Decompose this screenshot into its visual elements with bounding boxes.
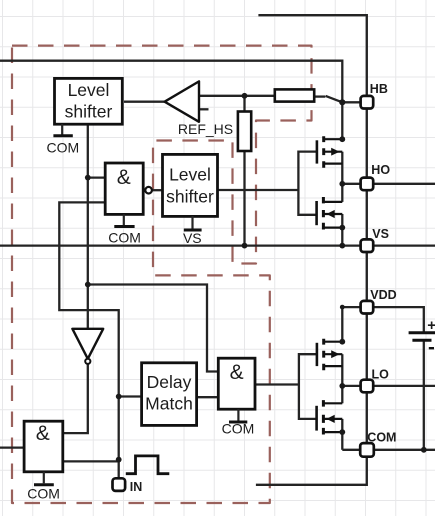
svg-text:COM: COM bbox=[367, 431, 396, 445]
svg-text:+: + bbox=[427, 317, 435, 334]
svg-text:&: & bbox=[230, 361, 244, 384]
node IN/AND2 bbox=[116, 457, 122, 463]
wire LS1 down through junctions to inverter bbox=[87, 124, 89, 329]
wire R2 bottom lead to VS rail bbox=[243, 151, 245, 246]
svg-text:shifter: shifter bbox=[166, 187, 214, 207]
wire VS rail bbox=[0, 244, 435, 246]
wire AND3 output to low-side gate bus bbox=[255, 383, 299, 385]
wire HB node to HB pin bbox=[342, 101, 361, 103]
transistor Q1 high-side upper PMOS bbox=[317, 136, 342, 168]
pin HO bbox=[361, 163, 391, 190]
level shifter U2 bbox=[163, 154, 218, 216]
wire high-side gate bus bbox=[298, 152, 316, 215]
wire top-left rail to HB node bbox=[0, 61, 342, 140]
wire node to resistor R1 bbox=[245, 95, 276, 97]
pin HB bbox=[361, 82, 388, 109]
switch blade to HB node bbox=[326, 96, 343, 102]
wire main right pin rail bbox=[256, 108, 367, 485]
AND gate G1 bbox=[105, 163, 152, 214]
wire Q3 source to LO node bbox=[341, 354, 343, 386]
wire HO line bbox=[342, 183, 435, 185]
wire low-side gate bus bbox=[299, 354, 316, 419]
wire top to HB pin bbox=[258, 15, 366, 96]
svg-text:COM: COM bbox=[222, 421, 255, 437]
level shifter U1 bbox=[55, 78, 123, 124]
transistor Q3 low-side upper PMOS bbox=[317, 339, 342, 371]
IC boundary dashed outline bbox=[12, 46, 312, 503]
pin LO bbox=[361, 368, 390, 393]
wire R1 right lead bbox=[314, 95, 326, 97]
resistor R1 bbox=[275, 89, 314, 101]
pin VDD bbox=[361, 288, 397, 314]
pin IN bbox=[113, 478, 143, 494]
wire capacitor bottom lead bbox=[423, 341, 425, 450]
wire IN node to Delay Match bbox=[119, 395, 142, 397]
svg-text:VDD: VDD bbox=[370, 288, 396, 302]
svg-text:COM: COM bbox=[108, 229, 141, 245]
wire Q1 source to HO node bbox=[341, 152, 343, 184]
wire inverter output to AND2 bbox=[63, 364, 88, 433]
node Q2 source bbox=[339, 225, 345, 231]
AND gate G2 bbox=[24, 421, 63, 472]
transistor Q2 high-side lower NMOS bbox=[317, 197, 343, 230]
node LS1/AND1 bbox=[85, 175, 91, 181]
inverter bbox=[72, 329, 103, 364]
svg-text:COM: COM bbox=[27, 485, 60, 501]
node REF_HS/R1/R2 bbox=[242, 93, 248, 99]
svg-text:HB: HB bbox=[370, 82, 388, 96]
node Q1 drain bbox=[339, 136, 345, 142]
wire AND1 input 2 elbow down to IN node bbox=[59, 202, 118, 478]
node IN/DelayMatch bbox=[116, 394, 122, 400]
ground COM under U1 bbox=[46, 124, 79, 155]
wire AND1 output to LS2 bbox=[151, 189, 162, 191]
ground COM under G2 bbox=[27, 472, 60, 502]
svg-text:Level: Level bbox=[169, 165, 211, 185]
node HB bbox=[339, 99, 345, 105]
node HO bbox=[339, 181, 345, 187]
pin COM bbox=[360, 431, 396, 457]
wire left edge to AND2 bbox=[0, 446, 24, 448]
capacitor C1 bbox=[409, 317, 435, 348]
svg-text:IN: IN bbox=[130, 480, 143, 494]
transistor Q4 low-side lower NMOS bbox=[317, 400, 343, 434]
wire LS1 output to buffer bbox=[124, 101, 165, 103]
wire Q4 source to COM line bbox=[341, 419, 343, 450]
node VS rail bbox=[339, 243, 345, 249]
svg-text:Delay: Delay bbox=[147, 372, 192, 392]
node Q3 drain bbox=[339, 339, 345, 345]
wire AND2 to IN node bbox=[63, 460, 119, 462]
AND gate G3 bbox=[218, 358, 255, 409]
wire R2 top lead bbox=[243, 96, 245, 112]
wire Q2 source to VS rail bbox=[341, 214, 343, 246]
wire node to AND3 top input bbox=[88, 285, 219, 372]
svg-text:shifter: shifter bbox=[65, 102, 113, 122]
node capacitor/COM bbox=[421, 447, 427, 453]
svg-text:HO: HO bbox=[371, 163, 390, 177]
wire Q4 drain to LO node bbox=[341, 386, 343, 403]
wire buffer stub bbox=[199, 108, 209, 110]
wire LO line bbox=[342, 385, 435, 387]
wire VDD pin right to capacitor bbox=[373, 307, 424, 332]
svg-text:VS: VS bbox=[372, 227, 389, 241]
node LO bbox=[339, 383, 345, 389]
svg-text:COM: COM bbox=[46, 139, 79, 155]
pulse waveform at IN bbox=[126, 456, 170, 474]
VS reference under U2 bbox=[183, 216, 202, 246]
svg-text:LO: LO bbox=[372, 368, 390, 382]
wire node to AND1 input 1 bbox=[88, 176, 106, 178]
wire LS2 output to high-side gate bus bbox=[217, 189, 298, 191]
wire buffer input bbox=[199, 95, 245, 97]
svg-text:REF_HS: REF_HS bbox=[178, 121, 233, 137]
node to AND3 branch bbox=[85, 282, 91, 288]
resistor R2 bbox=[238, 112, 251, 152]
delay match block bbox=[142, 363, 197, 426]
wire Q2 drain to HO node bbox=[341, 184, 343, 202]
svg-text:Match: Match bbox=[145, 393, 193, 413]
svg-text:Level: Level bbox=[68, 80, 110, 100]
svg-text:VS: VS bbox=[183, 230, 202, 246]
wire Delay Match to AND3 bbox=[196, 396, 218, 398]
ground COM under G1 bbox=[108, 214, 141, 245]
svg-text:&: & bbox=[36, 422, 50, 445]
node VDD corner bbox=[340, 305, 345, 310]
wire VDD pin left to Q3 drain bbox=[342, 307, 361, 342]
ground COM under G3 bbox=[222, 409, 255, 436]
buffer REF_HS bbox=[165, 81, 234, 136]
node R2/VS rail bbox=[242, 243, 248, 249]
svg-text:&: & bbox=[117, 166, 131, 189]
wire COM line bbox=[342, 449, 435, 451]
node Q4 source bbox=[339, 429, 345, 435]
pin VS bbox=[361, 227, 389, 252]
